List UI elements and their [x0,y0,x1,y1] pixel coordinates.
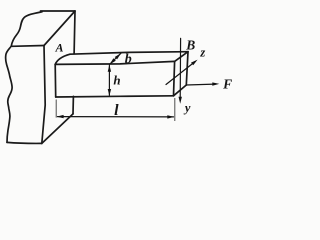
beam top-back edge [70,52,188,55]
dimension l right extension line [174,98,176,121]
beam end-face back-right edge [186,52,188,85]
beam top-left junction diagonal [55,54,70,64]
arrowhead b upper-right [115,53,121,59]
dimension b arrow shaft [109,53,121,64]
wall bottom-right oblique edge [42,114,73,143]
wall break wavy left edge [6,12,42,143]
svg-text:b: b [125,52,132,67]
arrowhead h up [108,65,111,72]
svg-text:A: A [54,41,63,55]
svg-text:y: y [183,101,191,115]
arrowhead l right [167,115,174,118]
beam end-face top diagonal [175,52,188,62]
dimension h shaft [108,66,110,96]
dimension l left extension line [55,100,57,118]
svg-text:B: B [185,37,195,52]
beam top-front edge [55,61,174,64]
beam front-left edge at wall [54,64,57,97]
wall front-top edge [12,45,44,48]
wall back-right vertical edge (above beam) [73,11,76,54]
axis y line [179,38,181,100]
wall top-face right oblique edge [44,11,75,46]
wall back-right vertical edge (below beam) [72,96,74,114]
wall bottom-front edge [7,142,42,143]
beam front-right end edge [174,61,175,95]
axis z line [166,62,195,85]
beam bottom-front edge [56,96,174,97]
wall front-right vertical edge [42,46,45,144]
svg-text:z: z [199,45,205,59]
svg-text:F: F [222,77,232,92]
arrowhead z [191,60,198,66]
dimension l line [58,116,174,118]
wall top back edge [41,10,76,12]
svg-text:h: h [113,73,120,88]
arrowhead b lower-left [110,58,116,64]
arrowhead y down [179,97,182,104]
beam end-face bottom diagonal [174,85,187,96]
force F line [186,83,214,86]
arrowhead F [212,82,219,85]
arrowhead l left [57,115,64,118]
svg-text:l: l [114,102,119,119]
arrowhead h down [108,89,111,96]
